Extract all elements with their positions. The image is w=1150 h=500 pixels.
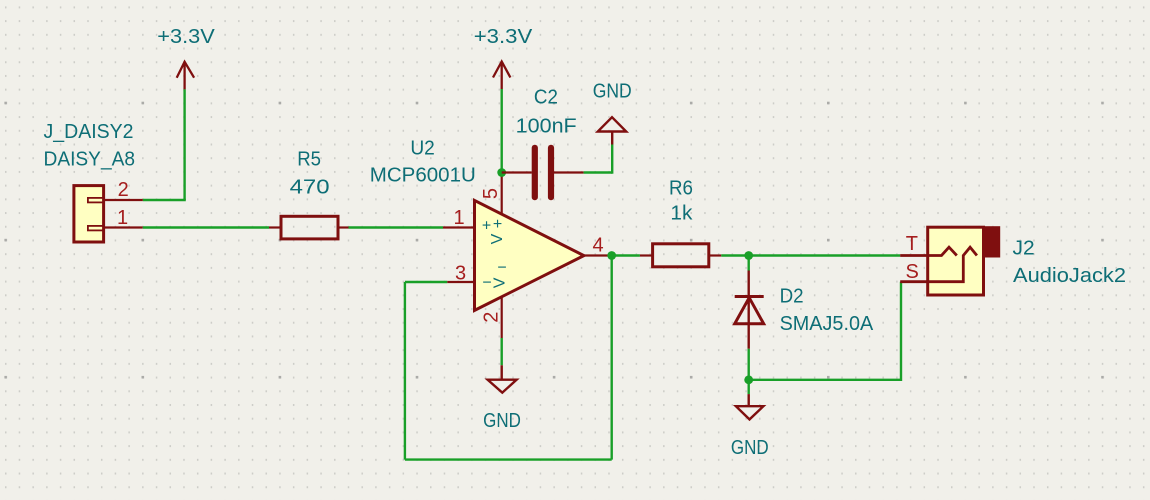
svg-text:J_DAISY2: J_DAISY2: [44, 120, 134, 143]
svg-text:MCP6001U: MCP6001U: [370, 163, 476, 186]
svg-text:DAISY_A8: DAISY_A8: [44, 147, 136, 170]
wire junction to GND stub: [748, 380, 750, 394]
svg-text:J2: J2: [1013, 237, 1035, 260]
svg-text:470: 470: [290, 176, 330, 199]
power symbol +3.3V (left): [177, 62, 194, 90]
svg-text:3: 3: [455, 262, 466, 284]
wire R6 to jack T / diode junction: [721, 254, 900, 256]
svg-text:AudioJack2: AudioJack2: [1013, 264, 1126, 287]
op-amp pin 4 (output): [584, 254, 610, 256]
svg-text:V: V: [489, 233, 506, 244]
wire connector pin 2 to vertical riser: [143, 199, 186, 201]
svg-text:GND: GND: [593, 79, 632, 102]
capacitor C2: [502, 148, 584, 197]
feedback wire: output junction down: [611, 256, 613, 460]
svg-text:R6: R6: [669, 177, 693, 200]
power symbol +3.3V (above op-amp): [493, 62, 510, 90]
junction at op-amp output: [607, 251, 616, 260]
ground symbol GND (below op-amp): [488, 365, 517, 392]
svg-text:+: +: [493, 216, 502, 233]
svg-text:4: 4: [592, 235, 603, 257]
op-amp pin name V- (rotated): [491, 260, 508, 289]
svg-text:V: V: [491, 277, 508, 288]
feedback wire: bottom horizontal: [405, 458, 612, 460]
wire riser up to GND: [611, 145, 613, 174]
audio jack J2 body: [928, 227, 1000, 295]
op-amp U2 body: [475, 200, 584, 310]
svg-text:+3.3V: +3.3V: [157, 25, 215, 48]
wire R5 to U2 pin 1: [349, 226, 444, 228]
op-amp pin 5: [501, 173, 503, 215]
op-amp pin 3: [447, 281, 475, 283]
junction at pin 5 / C2: [497, 168, 506, 177]
svg-text:2: 2: [118, 179, 129, 201]
svg-text:−: −: [497, 260, 506, 277]
connector pin 2: [104, 199, 143, 201]
svg-text:S: S: [906, 261, 919, 283]
op-amp pin 1: [443, 226, 475, 228]
wire C2 to GND riser: [584, 171, 613, 173]
diode D2: [735, 271, 764, 349]
connector pin 1: [104, 226, 143, 228]
svg-text:1: 1: [453, 207, 464, 229]
svg-text:−: −: [482, 275, 491, 292]
wire from +3.3V down to connector pin 2: [183, 89, 185, 200]
svg-text:+3.3V: +3.3V: [474, 25, 533, 48]
svg-text:U2: U2: [410, 136, 435, 159]
connector J_DAISY2 body: [74, 186, 104, 242]
wire D2 to GND junction: [748, 349, 750, 380]
audio jack J2 pin T (tip): [900, 247, 957, 255]
ground symbol GND (below D2): [736, 394, 764, 419]
audio jack J2 pin S (sleeve): [900, 247, 977, 282]
svg-text:SMAJ5.0A: SMAJ5.0A: [780, 312, 874, 335]
wire into op-amp pin 3: [405, 281, 447, 283]
wire sleeve riser up to jack S pin: [900, 282, 902, 381]
svg-text:C2: C2: [534, 85, 558, 108]
resistor R5: [269, 216, 349, 239]
wire +3.3V to pin 5 junction: [501, 89, 503, 173]
svg-text:T: T: [906, 233, 918, 255]
junction at D2 / GND / jack sleeve: [744, 375, 753, 384]
wire junction down to D2: [748, 256, 750, 271]
feedback wire: left vertical up to pin 3: [404, 282, 406, 460]
wire junction to jack sleeve riser: [749, 379, 901, 381]
svg-text:2: 2: [481, 312, 503, 323]
ground symbol GND (above C2, flipped): [598, 117, 626, 144]
wire op-amp output to R6: [610, 254, 640, 256]
junction at R6 / D2: [744, 251, 753, 260]
svg-text:GND: GND: [483, 409, 521, 432]
svg-text:R5: R5: [297, 148, 321, 171]
svg-text:100nF: 100nF: [516, 114, 577, 137]
svg-text:+: +: [482, 218, 491, 235]
op-amp pin 2: [501, 296, 503, 338]
svg-text:5: 5: [480, 188, 502, 199]
resistor R6: [640, 244, 721, 267]
wire connector pin1 to R5: [143, 226, 269, 228]
svg-text:1: 1: [117, 207, 128, 229]
wire op-amp pin 2 down: [501, 338, 503, 365]
svg-text:GND: GND: [731, 436, 769, 459]
op-amp pin name V+ (rotated): [489, 216, 506, 244]
svg-text:1k: 1k: [670, 201, 693, 224]
svg-text:D2: D2: [780, 285, 804, 308]
